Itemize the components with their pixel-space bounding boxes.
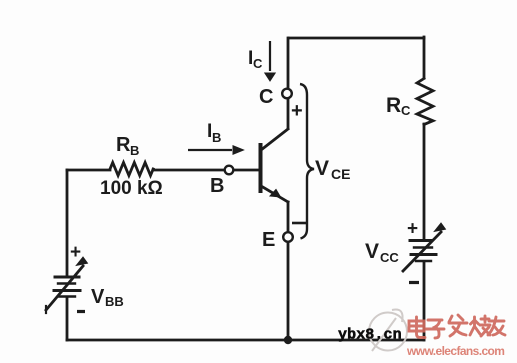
wire base left bbox=[67, 169, 110, 172]
glyph fa bbox=[449, 315, 467, 336]
wire right rail middle bbox=[423, 124, 426, 240]
junction dot bbox=[284, 336, 292, 344]
arrowhead VCC bbox=[435, 224, 445, 232]
svg-text:C: C bbox=[259, 86, 273, 108]
watermark chinese glyphs "dian zi fa shao you" bbox=[409, 315, 505, 338]
transistor Q1 bbox=[261, 129, 289, 202]
watermark logo swirl bbox=[369, 310, 407, 352]
current arrow IB bbox=[188, 146, 244, 154]
node B terminal circle bbox=[225, 166, 234, 175]
battery VCC bbox=[403, 232, 441, 271]
arrowhead VBB bbox=[77, 258, 87, 266]
svg-text:R: R bbox=[116, 134, 131, 156]
wire bottom rail bbox=[67, 339, 424, 342]
glyph dian bbox=[409, 317, 425, 338]
svg-text:www.elecfans.com: www.elecfans.com bbox=[406, 344, 504, 358]
label minus VCC bbox=[409, 281, 419, 284]
wire left rail upper bbox=[66, 170, 69, 275]
svg-text:B: B bbox=[130, 143, 139, 158]
label minus VBB bbox=[77, 310, 85, 313]
svg-text:CC: CC bbox=[380, 250, 399, 265]
svg-text:+: + bbox=[407, 219, 418, 240]
svg-text:V: V bbox=[315, 157, 329, 180]
svg-text:V: V bbox=[365, 240, 379, 263]
svg-text:C: C bbox=[253, 56, 263, 71]
glyph you bbox=[488, 317, 505, 335]
wire emitter vertical bbox=[287, 202, 290, 231]
svg-text:C: C bbox=[401, 103, 411, 118]
brace VCE bbox=[300, 84, 314, 239]
wire right rail upper bbox=[423, 37, 426, 78]
glyph zi bbox=[426, 320, 444, 338]
svg-text:R: R bbox=[386, 94, 401, 117]
svg-text:CE: CE bbox=[331, 166, 350, 182]
svg-text:+: + bbox=[291, 100, 303, 122]
svg-text:BB: BB bbox=[105, 294, 124, 309]
wire collector vertical bbox=[287, 38, 290, 87]
svg-text:+: + bbox=[70, 242, 81, 263]
svg-text:V: V bbox=[91, 286, 105, 308]
svg-text:E: E bbox=[262, 229, 275, 251]
wire left rail lower bbox=[66, 298, 69, 340]
resistor RC bbox=[417, 79, 433, 125]
current arrow IC bbox=[265, 41, 275, 81]
svg-text:100 kΩ: 100 kΩ bbox=[100, 178, 163, 199]
wire top rail bbox=[289, 37, 424, 40]
wire base right bbox=[153, 169, 224, 172]
svg-text:B: B bbox=[210, 175, 224, 197]
svg-text:B: B bbox=[212, 130, 221, 145]
resistor RB bbox=[110, 163, 153, 176]
node C terminal circle bbox=[282, 89, 292, 99]
svg-text:ybx8.cn: ybx8.cn bbox=[338, 327, 402, 344]
wire right rail lower bbox=[423, 263, 426, 340]
glyph shao bbox=[470, 316, 490, 336]
arrowhead emitter bbox=[270, 190, 281, 198]
battery VBB bbox=[46, 266, 83, 313]
node E terminal circle bbox=[283, 232, 293, 242]
label minus VCE bbox=[292, 222, 306, 225]
